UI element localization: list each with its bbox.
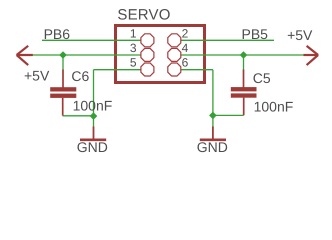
svg-text:2: 2 (182, 27, 189, 41)
pin number 3 (130, 41, 137, 55)
ground label GND left (77, 139, 108, 155)
node PB6 label (44, 26, 71, 42)
connector SERVO name label (117, 6, 170, 23)
pin number 4 (182, 41, 189, 55)
wire right cap top (243, 55, 245, 70)
svg-text:GND: GND (197, 139, 228, 155)
pin number 2 (182, 27, 189, 41)
pin pad 4 (168, 48, 181, 61)
wire GND net from pin 6 (181, 70, 213, 127)
capacitor C6 value label (73, 98, 113, 114)
svg-text:100nF: 100nF (73, 98, 113, 114)
wire left cap top (62, 55, 64, 70)
wire +5V net left from arrow to pin 3 (33, 54, 142, 56)
svg-text:+5V: +5V (287, 27, 313, 43)
pin pad 6 (168, 63, 181, 76)
pin pad 5 (141, 63, 154, 76)
ground label GND right (197, 139, 228, 155)
wire right cap bottom to GND net (213, 114, 244, 116)
pin pad 1 (141, 34, 154, 47)
svg-text:SERVO: SERVO (117, 6, 170, 23)
node junction left GND (90, 112, 98, 120)
wire +5V net right from pin 4 to arrow (181, 54, 304, 56)
ground symbol right (200, 127, 226, 140)
node junction right GND (209, 112, 217, 120)
svg-text:+5V: +5V (24, 68, 50, 84)
node junction right +5V (240, 51, 248, 59)
svg-text:3: 3 (130, 41, 137, 55)
wire PB5 net from pin 2 (181, 39, 275, 41)
supply arrow +5V right (304, 46, 319, 65)
svg-text:4: 4 (182, 41, 189, 55)
svg-text:6: 6 (182, 56, 189, 70)
svg-text:PB5: PB5 (242, 26, 269, 42)
svg-text:GND: GND (77, 139, 108, 155)
wire GND net from pin 5 (94, 70, 142, 127)
supply arrow +5V left (17, 46, 33, 65)
capacitor C6 (50, 70, 76, 116)
node junction left +5V (59, 51, 67, 59)
ground symbol left (80, 127, 106, 140)
connector SERVO body (116, 26, 205, 83)
pin number 5 (130, 56, 137, 70)
pin pad 2 (168, 34, 181, 47)
pin number 6 (182, 56, 189, 70)
supply label +5V left (24, 68, 50, 84)
pin number 1 (130, 27, 137, 41)
supply label +5V right (287, 27, 313, 43)
svg-text:C6: C6 (71, 68, 89, 84)
svg-text:PB6: PB6 (44, 26, 71, 42)
node PB5 label (242, 26, 269, 42)
pin pad 3 (141, 48, 154, 61)
capacitor C6 name label (71, 68, 89, 84)
svg-text:100nF: 100nF (254, 99, 294, 115)
wire left cap bottom to GND net (63, 115, 95, 117)
capacitor C5 value label (254, 99, 294, 115)
svg-text:1: 1 (130, 27, 137, 41)
capacitor C5 name label (253, 70, 271, 86)
svg-text:C5: C5 (253, 70, 271, 86)
svg-text:5: 5 (130, 56, 137, 70)
capacitor C5 (231, 70, 257, 116)
wire PB6 net from pin 1 (42, 39, 141, 41)
